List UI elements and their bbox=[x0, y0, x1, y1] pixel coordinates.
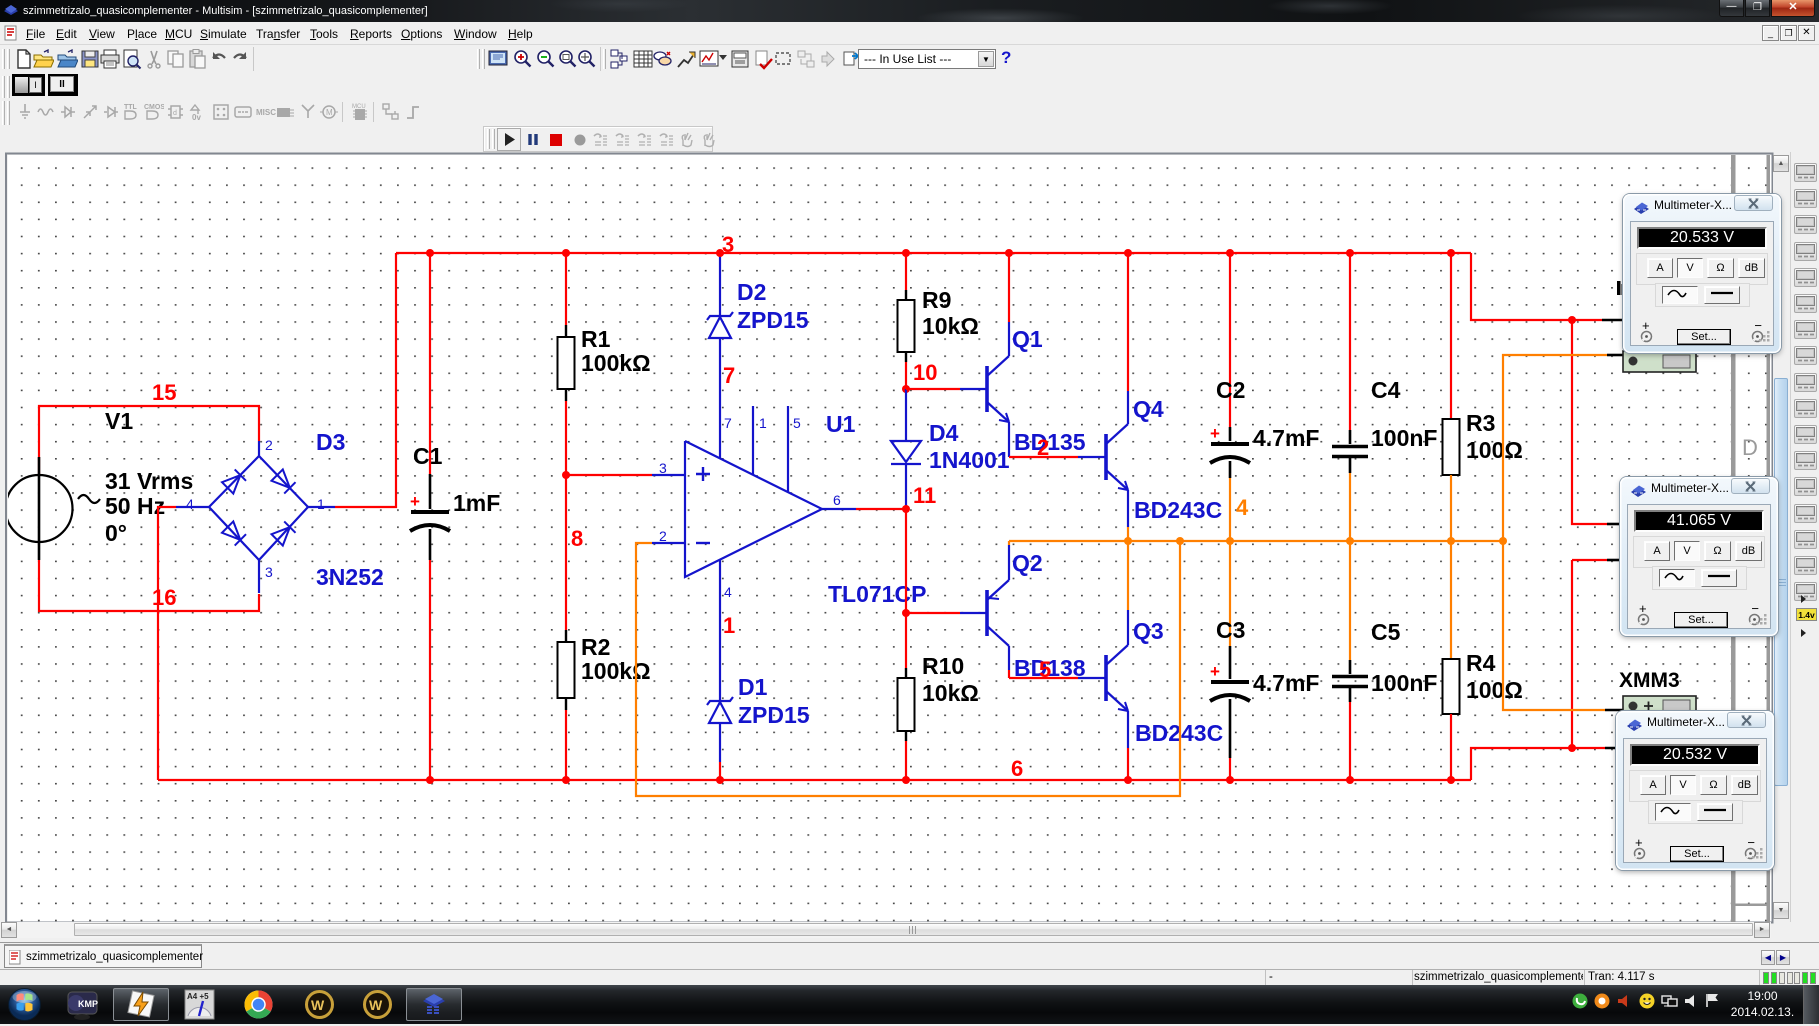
simulation toolbar bbox=[483, 126, 713, 152]
canvas border frame bbox=[6, 154, 1773, 923]
op-amp pin 5 stub bbox=[787, 406, 789, 492]
resistor R9 bbox=[905, 253, 907, 290]
svg-text:50 Hz: 50 Hz bbox=[105, 493, 165, 519]
hidden label fragment near XMM1 bbox=[1617, 281, 1621, 295]
sheet border inner line bbox=[1731, 155, 1736, 922]
zener diode D1 bbox=[719, 592, 721, 700]
junction C4 top bbox=[1346, 249, 1354, 257]
svg-text:R4: R4 bbox=[1466, 650, 1496, 676]
svg-text:4.7mF: 4.7mF bbox=[1253, 670, 1319, 696]
junction C1 top bbox=[426, 249, 434, 257]
svg-text:1: 1 bbox=[317, 496, 325, 512]
transistor Q4 bbox=[1104, 434, 1108, 480]
svg-text:W: W bbox=[311, 997, 325, 1013]
svg-text:10kΩ: 10kΩ bbox=[922, 680, 979, 706]
svg-text:D4: D4 bbox=[929, 420, 959, 446]
diode D4 bbox=[905, 389, 907, 441]
bottom rail net 6 bbox=[158, 779, 1471, 781]
sheet border bottom zone line bbox=[1731, 904, 1770, 907]
svg-text:+: + bbox=[410, 492, 420, 511]
svg-text:D1: D1 bbox=[738, 674, 768, 700]
svg-text:XMM3: XMM3 bbox=[1619, 669, 1680, 692]
svg-text:R3: R3 bbox=[1466, 410, 1495, 436]
svg-text:KMP: KMP bbox=[78, 999, 98, 1009]
svg-text:2: 2 bbox=[265, 437, 273, 453]
wire node2q to Q2 base bbox=[906, 612, 960, 614]
window title bar bbox=[0, 0, 1819, 22]
top rail net 3 bbox=[396, 252, 1471, 254]
wire Q1 emitter to Q4 base net 2 bbox=[1009, 456, 1078, 458]
svg-text:Q2: Q2 bbox=[1012, 550, 1043, 576]
svg-text:3N252: 3N252 bbox=[316, 564, 384, 590]
svg-text:D3: D3 bbox=[316, 429, 345, 455]
op-amp pin 1 stub bbox=[752, 406, 754, 475]
bridge diode bottom-right bbox=[271, 521, 295, 545]
menu bar bbox=[0, 22, 1819, 45]
svg-text:ZPD15: ZPD15 bbox=[737, 307, 809, 333]
svg-text:16: 16 bbox=[152, 585, 176, 610]
sheet border outer line bbox=[1767, 155, 1771, 922]
junction Q4 collector top bbox=[1124, 249, 1132, 257]
svg-text:7: 7 bbox=[723, 363, 735, 388]
svg-text:W: W bbox=[369, 997, 383, 1013]
scrollbars bbox=[1773, 155, 1789, 919]
svg-text:1mF: 1mF bbox=[453, 490, 500, 516]
svg-text:R10: R10 bbox=[922, 653, 964, 679]
wire XMM2 minus down bbox=[1572, 559, 1607, 561]
svg-text:100nF: 100nF bbox=[1371, 670, 1437, 696]
junction node 11 bbox=[902, 505, 910, 513]
bridge diode bottom-left bbox=[222, 521, 246, 545]
svg-text:2: 2 bbox=[659, 528, 667, 544]
junction feedback rail bbox=[1176, 537, 1184, 545]
junction R1 top bbox=[562, 249, 570, 257]
wire bridge left down to bottom rail bbox=[158, 507, 176, 780]
svg-text:+: + bbox=[1210, 662, 1220, 681]
svg-text:3: 3 bbox=[659, 460, 667, 476]
svg-text:Q4: Q4 bbox=[1133, 396, 1164, 422]
bridge diode top-right bbox=[271, 469, 295, 493]
junction Q2 base node bbox=[902, 609, 910, 617]
wire Q2 collector to Q3 base bbox=[1009, 677, 1078, 679]
capacitor C4 bbox=[1349, 253, 1351, 430]
svg-text:D2: D2 bbox=[737, 279, 766, 305]
junction Q4 emitter rail bbox=[1124, 537, 1132, 545]
svg-text:4: 4 bbox=[1236, 495, 1249, 520]
svg-text:6: 6 bbox=[1011, 756, 1023, 781]
resistor R1 bbox=[565, 253, 567, 325]
svg-text:5: 5 bbox=[793, 415, 801, 431]
junction C2 top bbox=[1226, 249, 1234, 257]
orange junction node 4 right bbox=[1499, 537, 1507, 545]
resistor R4 bbox=[1450, 541, 1452, 659]
svg-text:1N4001: 1N4001 bbox=[929, 447, 1010, 473]
junction C3 bottom bbox=[1226, 776, 1234, 784]
transistor Q3 bbox=[1104, 655, 1108, 701]
svg-text:3: 3 bbox=[265, 564, 273, 580]
junction C5 bottom bbox=[1346, 776, 1354, 784]
svg-text:0°: 0° bbox=[105, 520, 127, 546]
wire net4 to XMM1 minus bbox=[1503, 355, 1607, 541]
wire node10 to Q1 base bbox=[906, 388, 960, 390]
resistor R10 bbox=[905, 613, 907, 668]
svg-text:BD243C: BD243C bbox=[1134, 497, 1222, 523]
svg-text:+: + bbox=[1210, 424, 1220, 443]
op-amp pin 4 stub bbox=[719, 559, 721, 592]
svg-text:6: 6 bbox=[833, 492, 841, 508]
wire bridge right to top rail bbox=[335, 253, 396, 507]
svg-text:R1: R1 bbox=[581, 326, 611, 352]
junction R9 top bbox=[902, 249, 910, 257]
svg-text:7: 7 bbox=[724, 415, 732, 431]
junction D2 top bbox=[716, 249, 724, 257]
svg-text:4: 4 bbox=[724, 584, 732, 600]
svg-text:1: 1 bbox=[759, 415, 767, 431]
svg-text:4: 4 bbox=[186, 496, 194, 512]
svg-text:8: 8 bbox=[571, 526, 583, 551]
junction C4 bottom bbox=[1346, 537, 1354, 545]
svg-text:C2: C2 bbox=[1216, 377, 1245, 403]
svg-text:100Ω: 100Ω bbox=[1466, 677, 1523, 703]
junction node 10 bbox=[902, 385, 910, 393]
svg-text:A4 +5: A4 +5 bbox=[187, 992, 209, 1001]
svg-text:10kΩ: 10kΩ bbox=[922, 313, 979, 339]
junction XMM3 plus bbox=[1568, 744, 1576, 752]
junction R4 bottom bbox=[1447, 776, 1455, 784]
resistor R2 bbox=[565, 475, 567, 630]
junction Q1 collector top bbox=[1005, 249, 1013, 257]
feedback wire net 4 to op-amp inverting input bbox=[636, 541, 1180, 796]
bridge rectifier D3 diamond bbox=[209, 456, 308, 560]
junction R10 bottom bbox=[902, 776, 910, 784]
svg-text:Q1: Q1 bbox=[1012, 326, 1043, 352]
svg-text:BD135: BD135 bbox=[1014, 429, 1086, 455]
svg-text:100Ω: 100Ω bbox=[1466, 437, 1523, 463]
svg-text:15: 15 bbox=[152, 380, 176, 405]
AC source V1 bbox=[6, 475, 73, 542]
svg-text:V1: V1 bbox=[105, 408, 133, 434]
svg-text:C5: C5 bbox=[1371, 619, 1401, 645]
junction C1 bottom bbox=[426, 776, 434, 784]
svg-text:C3: C3 bbox=[1216, 617, 1245, 643]
svg-text:C4: C4 bbox=[1371, 377, 1401, 403]
capacitor C1 bbox=[429, 253, 431, 474]
instruments toolbar bbox=[1790, 152, 1819, 922]
capacitor C2 bbox=[1229, 253, 1231, 427]
transistor Q1 bbox=[985, 366, 989, 412]
op-amp minus sign bbox=[696, 542, 710, 544]
op-amp pin 7 stub bbox=[719, 409, 721, 458]
wire net4 to XMM3 minus bbox=[1503, 541, 1605, 710]
op-amp plus sign bbox=[696, 467, 710, 481]
multimeter window XMM1 bbox=[1623, 194, 1781, 353]
toolbar row 1 placeholder bbox=[0, 46, 1819, 73]
junction R3 top bbox=[1447, 249, 1455, 257]
svg-text:100kΩ: 100kΩ bbox=[581, 658, 651, 684]
wire V1 bottom loop net 16 bbox=[39, 560, 259, 611]
MDI child buttons bbox=[1762, 25, 1779, 41]
svg-text:TL071CP: TL071CP bbox=[828, 581, 926, 607]
junction Q3 emitter bottom bbox=[1124, 776, 1132, 784]
svg-text:U1: U1 bbox=[826, 411, 856, 437]
junction node 8 bbox=[562, 471, 570, 479]
canvas sheet background bbox=[8, 155, 1772, 922]
wire V1 top loop net 15 bbox=[39, 406, 259, 474]
junction R2 bottom bbox=[562, 776, 570, 784]
junction XMM2 feed bbox=[1568, 316, 1576, 324]
junction D1 bottom bbox=[716, 776, 724, 784]
zener diode D2 bbox=[719, 256, 721, 315]
multimeter window XMM2 bbox=[1620, 477, 1778, 636]
svg-text:D: D bbox=[1742, 435, 1758, 460]
resistor R3 bbox=[1450, 253, 1452, 419]
wire op-amp out to node 11 bbox=[856, 508, 906, 510]
wire to XMM2 plus bbox=[1572, 320, 1607, 524]
svg-text:100nF: 100nF bbox=[1371, 425, 1437, 451]
transistor Q2 bbox=[985, 590, 989, 636]
multimeter component XMM3 strip bbox=[1623, 696, 1696, 717]
multimeter component XMM1 strip bbox=[1623, 351, 1696, 372]
svg-text:R2: R2 bbox=[581, 634, 610, 660]
capacitor C5 bbox=[1349, 541, 1351, 660]
svg-text:ZPD15: ZPD15 bbox=[738, 702, 810, 728]
status bar bbox=[0, 969, 1819, 985]
op-amp input stub pin 2 bbox=[652, 542, 685, 544]
caption buttons bbox=[1719, 0, 1744, 17]
svg-text:4.7mF: 4.7mF bbox=[1253, 425, 1319, 451]
op-amp output pin 6 bbox=[822, 508, 856, 510]
svg-text:11: 11 bbox=[913, 483, 936, 508]
svg-text:100kΩ: 100kΩ bbox=[581, 350, 651, 376]
op-amp input stub pin 3 bbox=[566, 474, 652, 476]
junction C2 bottom bbox=[1226, 537, 1234, 545]
capacitor C3 bbox=[1229, 541, 1231, 646]
bridge diode top-left bbox=[222, 469, 246, 493]
svg-text:10: 10 bbox=[913, 360, 937, 385]
wire node 11 down to node 2q bbox=[905, 509, 907, 613]
multimeter window XMM3 bbox=[1616, 711, 1774, 870]
svg-text:31 Vrms: 31 Vrms bbox=[105, 468, 193, 494]
taskbar bbox=[0, 985, 1819, 1024]
svg-text:R9: R9 bbox=[922, 287, 951, 313]
op-amp U1 triangle bbox=[685, 441, 822, 577]
junction R3 bottom bbox=[1447, 537, 1455, 545]
svg-text:Q3: Q3 bbox=[1133, 618, 1164, 644]
wire top rail to XMM1 plus bbox=[1471, 253, 1602, 320]
wire bottom rail to XMM3 plus bbox=[1471, 748, 1605, 780]
svg-text:1: 1 bbox=[723, 613, 735, 638]
tab row bbox=[0, 942, 1819, 969]
mid orange rail net 4 bbox=[1009, 540, 1503, 542]
svg-text:C1: C1 bbox=[413, 443, 443, 469]
